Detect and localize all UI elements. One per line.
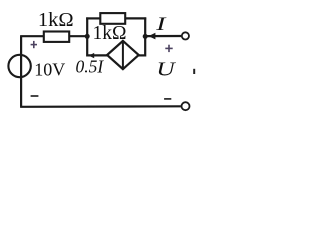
label voltage U bbox=[156, 58, 176, 80]
terminal a open circle bbox=[182, 32, 189, 39]
arrowhead current 0.5I pointing left bbox=[89, 53, 95, 58]
controlled source internal bar bbox=[122, 41, 124, 69]
resistor R1 body bbox=[44, 32, 69, 42]
terminal b open circle bbox=[182, 102, 190, 110]
label current I bbox=[155, 14, 167, 35]
wire left column node A bbox=[86, 17, 88, 56]
node A junction dot bbox=[85, 34, 90, 39]
wire top branch right bbox=[125, 17, 146, 19]
svg-text:I: I bbox=[155, 14, 167, 35]
edge mark right border bbox=[193, 69, 195, 74]
label plus near terminal a bbox=[165, 45, 172, 52]
node B junction dot bbox=[143, 34, 148, 39]
svg-text:10V: 10V bbox=[34, 60, 65, 80]
wire right column node B bbox=[144, 17, 146, 56]
wire bottom rail bbox=[20, 105, 181, 108]
svg-text:U: U bbox=[156, 58, 176, 80]
voltage source Us circle bbox=[8, 55, 30, 77]
wire bottom branch right bbox=[138, 54, 145, 56]
wire top branch left bbox=[86, 17, 100, 19]
label minus near source bbox=[31, 95, 39, 97]
wire bottom branch left bbox=[87, 54, 107, 56]
wire R1 to node A bbox=[69, 35, 88, 37]
label minus near terminal b bbox=[164, 98, 171, 100]
svg-text:0.5I: 0.5I bbox=[76, 56, 105, 76]
svg-text:1kΩ: 1kΩ bbox=[38, 9, 74, 31]
label plus near source bbox=[31, 41, 37, 48]
resistor R2 body bbox=[100, 13, 125, 24]
wire top-left rail bbox=[20, 35, 44, 37]
controlled current source 0.5I diamond bbox=[107, 41, 139, 69]
arrowhead current I pointing left bbox=[148, 33, 155, 40]
wire left vertical bbox=[20, 36, 22, 107]
wire right rail to terminal bbox=[145, 35, 181, 37]
